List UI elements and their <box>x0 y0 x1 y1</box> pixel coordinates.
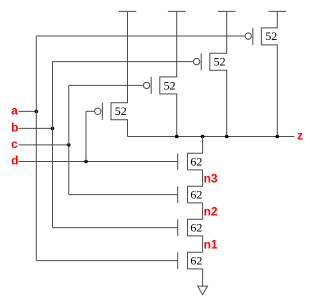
pmos P2 52 (gate c) <box>143 11 176 136</box>
pmos P1 52 (gate d) <box>95 11 128 136</box>
wire c to nmos N2 gate <box>69 194 178 196</box>
wire a vertical <box>35 36 37 261</box>
wire N4 source to ground <box>202 269 204 286</box>
junction dot P4 drain on z <box>276 135 280 139</box>
svg-text:b: b <box>11 121 18 135</box>
svg-text:52: 52 <box>164 78 176 92</box>
wire z rail to nmos N1 drain <box>202 137 204 154</box>
vdd symbol 4 <box>269 10 287 12</box>
pmos P3 52 (gate b) <box>193 11 226 136</box>
svg-text:62: 62 <box>190 188 202 202</box>
svg-text:z: z <box>297 129 303 143</box>
svg-text:52: 52 <box>265 29 277 43</box>
svg-text:n2: n2 <box>204 205 218 219</box>
vdd symbol 1 <box>119 10 137 12</box>
wire c vertical <box>68 85 70 194</box>
wire node n3 (N1 source to N2 drain) <box>202 170 204 186</box>
vdd symbol 3 <box>218 10 236 12</box>
wire c to pmos P2 gate <box>69 84 143 86</box>
wire a to pmos P4 gate <box>36 35 244 37</box>
pmos P4 52 (gate a) <box>245 11 277 136</box>
junction dot P3 drain on z <box>225 135 229 139</box>
wire b label stub <box>19 127 53 129</box>
wire output z rail <box>128 136 295 138</box>
wire d vertical <box>85 111 87 161</box>
wire a label stub <box>19 110 37 112</box>
wire d to pmos P1 gate <box>86 110 94 112</box>
svg-text:52: 52 <box>214 55 226 69</box>
svg-text:62: 62 <box>190 221 202 235</box>
nmos N4 62 (gate a) <box>178 252 203 269</box>
wire node n1 (N3 source to N4 drain) <box>202 236 204 252</box>
wire c label stub <box>19 144 69 146</box>
junction dot a <box>35 110 39 114</box>
wire node n2 (N2 source to N3 drain) <box>202 203 204 219</box>
vdd symbol 2 <box>168 10 186 12</box>
wire d label to nmos N1 gate <box>19 161 178 163</box>
junction dot c <box>67 143 71 147</box>
wire b vertical <box>52 62 54 228</box>
ground <box>198 286 208 295</box>
svg-text:52: 52 <box>115 104 127 118</box>
svg-text:62: 62 <box>190 155 202 169</box>
wire b to nmos N3 gate <box>53 227 178 229</box>
junction dot P2 drain on z <box>175 135 179 139</box>
wire a to nmos N4 gate <box>36 260 178 262</box>
svg-text:a: a <box>11 104 18 118</box>
svg-text:c: c <box>11 137 18 151</box>
junction dot b <box>51 127 55 131</box>
wire b to pmos P3 gate <box>53 61 193 63</box>
svg-text:n1: n1 <box>204 238 218 252</box>
svg-text:d: d <box>11 154 18 168</box>
svg-text:n3: n3 <box>204 172 218 186</box>
junction dot nmos stack on z <box>201 135 205 139</box>
svg-text:62: 62 <box>190 254 202 268</box>
nmos N3 62 (gate b) <box>178 219 203 236</box>
nmos N2 62 (gate c) <box>178 186 203 203</box>
junction dot d <box>84 160 88 164</box>
nmos N1 62 (gate d) <box>178 153 203 170</box>
